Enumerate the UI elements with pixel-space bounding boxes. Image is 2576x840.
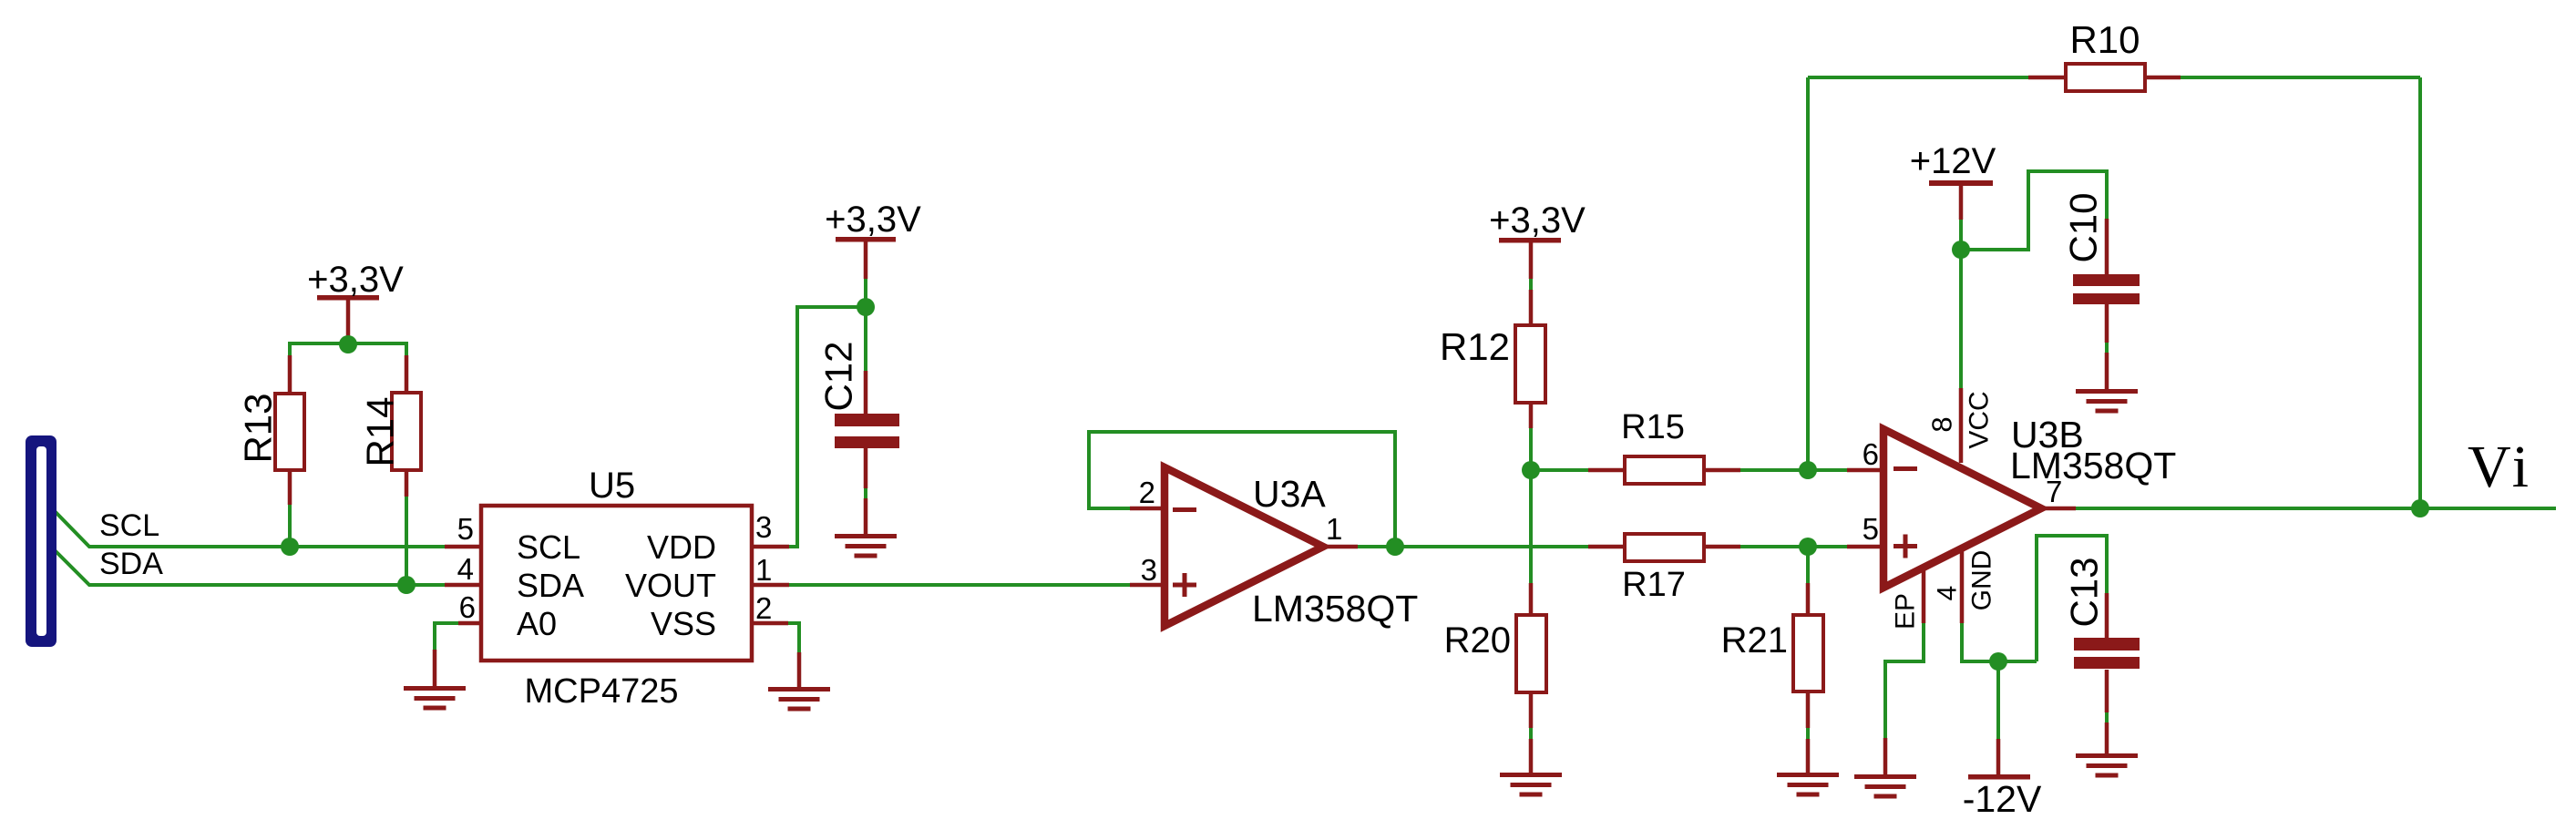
svg-text:+3,3V: +3,3V (825, 200, 921, 240)
ground under U5 VSS (768, 652, 830, 712)
svg-text:SCL: SCL (99, 508, 159, 543)
wire SDA from connector to U5 pin 4 (51, 547, 445, 585)
power -12V supply (1963, 739, 2042, 820)
svg-text:6: 6 (1863, 437, 1879, 471)
wire SCL from connector to U5 pin 5 (51, 507, 445, 547)
op-amp U3B LM358QT (1847, 388, 2176, 630)
net label Vi (2468, 434, 2533, 500)
op-amp U3A LM358QT (1130, 467, 1418, 630)
svg-text:SCL: SCL (517, 528, 580, 566)
svg-text:+3,3V: +3,3V (1489, 200, 1586, 241)
wire +12V node down to VCC pin (1959, 220, 1963, 388)
svg-text:1: 1 (1326, 512, 1342, 546)
junction +12V/VCC/C10 (1952, 241, 1970, 259)
svg-text:VDD: VDD (647, 528, 716, 566)
ground under C12 (835, 498, 897, 558)
ground under R20 (1500, 739, 1562, 797)
wire R15 to U3B pin 6 node (1740, 468, 1847, 472)
wire U3B EP pin to ground (1885, 623, 1924, 738)
wire C13 bottom to ground (2105, 712, 2109, 722)
resistor R14 (359, 355, 422, 497)
wire R12 node to R15 (1531, 468, 1588, 472)
wire R10 down to output Vi node (2418, 77, 2422, 508)
ground under R21 (1777, 739, 1839, 797)
svg-text:5: 5 (1863, 512, 1879, 546)
svg-text:+3,3V: +3,3V (307, 260, 404, 300)
wire U5 pin 3 VDD to +3,3V node (789, 307, 861, 547)
power +3,3V supply above C12 (825, 200, 921, 279)
svg-text:3: 3 (1141, 553, 1157, 587)
junction GND/-12V/C13 (1989, 652, 2007, 671)
wire U5 pin 1 VOUT to U3A pin 3 (789, 583, 1130, 587)
svg-text:1: 1 (755, 553, 772, 587)
junction R15/R10/pin6 node (1799, 461, 1817, 479)
resistor R17 (1588, 534, 1740, 604)
net label SCL (99, 508, 159, 543)
resistor R20 (1444, 583, 1546, 728)
svg-text:8: 8 (1926, 416, 1958, 432)
wire U3A feedback pin 2 to output (1089, 432, 1395, 547)
junction +3,3V rail (339, 335, 357, 353)
junction SCL/R13 (281, 538, 299, 556)
svg-text:VSS: VSS (651, 605, 716, 642)
svg-text:-12V: -12V (1963, 778, 2042, 820)
svg-text:SDA: SDA (517, 567, 584, 604)
svg-text:LM358QT: LM358QT (1252, 588, 1418, 630)
power +12V supply (1910, 141, 1996, 220)
svg-text:3: 3 (755, 510, 772, 544)
wire R10 left segment (1808, 76, 2028, 79)
svg-text:Vi: Vi (2468, 434, 2533, 500)
svg-text:A0: A0 (517, 605, 557, 642)
power +3,3V supply above R12 (1489, 200, 1586, 279)
wire U3B pin 7 output to Vi (2076, 507, 2556, 510)
power +3,3V supply above R13/R14 (307, 260, 404, 336)
wire C10 bottom to ground (2105, 343, 2109, 353)
net label SDA (99, 547, 163, 581)
junction SDA/R14 (397, 576, 416, 594)
capacitor C10 (2062, 192, 2140, 343)
svg-text:R21: R21 (1721, 620, 1788, 661)
ground under U3B EP (1854, 738, 1916, 799)
svg-text:5: 5 (457, 512, 474, 546)
svg-text:R10: R10 (2069, 18, 2140, 61)
wire U5 pin 2 VSS to ground (788, 623, 799, 652)
wire R13 bottom to SCL net (288, 505, 292, 547)
svg-text:4: 4 (1933, 586, 1963, 601)
capacitor C13 (2063, 557, 2140, 712)
svg-text:LM358QT: LM358QT (2010, 445, 2176, 487)
svg-text:R17: R17 (1622, 566, 1686, 604)
resistor R12 (1440, 290, 1545, 428)
junction U3A output/feedback (1386, 538, 1404, 556)
wire R12 node down to R20 (1529, 428, 1533, 583)
wire -12V node down stem (1996, 661, 2000, 739)
svg-text:R14: R14 (359, 396, 402, 466)
capacitor C12 (817, 341, 900, 488)
svg-text:C13: C13 (2063, 557, 2106, 627)
svg-text:R12: R12 (1440, 325, 1510, 368)
svg-text:R13: R13 (237, 393, 280, 463)
svg-text:C12: C12 (817, 341, 860, 411)
wire R21 bottom to ground (1806, 728, 1810, 739)
wire U3B GND pin to -12V node (1962, 623, 2037, 661)
wire +3,3V node through C12 top (864, 279, 867, 371)
connector J1 (I2C header) (26, 435, 56, 647)
junction output/R10 Vi node (2411, 499, 2429, 517)
wire -12V node to C13 top (2037, 536, 2107, 661)
svg-text:4: 4 (457, 552, 474, 586)
resistor R13 (237, 355, 305, 505)
junction +3,3V/C12/VDD (857, 298, 875, 316)
svg-text:2: 2 (1139, 476, 1155, 509)
ground under U5 A0 (404, 650, 466, 711)
wire pin 6 node up to R10 (1806, 77, 1810, 470)
wire +12V node to C10 top (1961, 171, 2107, 250)
resistor R21 (1721, 583, 1823, 728)
resistor R15 (1588, 408, 1740, 484)
svg-text:VCC: VCC (1965, 391, 1995, 448)
svg-text:C10: C10 (2062, 192, 2105, 262)
svg-text:R15: R15 (1621, 408, 1685, 446)
svg-text:GND: GND (1967, 550, 1997, 611)
resistor R10 (2028, 18, 2181, 91)
ground under C10 (2076, 353, 2138, 414)
svg-text:EP: EP (1891, 593, 1921, 630)
wire R12 top stem (1529, 279, 1533, 290)
svg-text:6: 6 (459, 590, 476, 624)
wire C12 bottom to ground (864, 488, 867, 498)
svg-text:R20: R20 (1444, 620, 1511, 661)
wire R17 to U3B pin 5 node (1740, 545, 1847, 548)
ground under C13 (2076, 722, 2138, 778)
junction R12/R15/R20 node (1522, 461, 1540, 479)
wire R10 right segment (2181, 76, 2420, 79)
svg-text:2: 2 (755, 591, 772, 625)
svg-text:U3A: U3A (1253, 473, 1326, 515)
svg-text:+12V: +12V (1910, 141, 1996, 181)
wire pin 5 node down to R21 (1806, 547, 1810, 583)
wire R14 bottom to SDA net (405, 497, 408, 585)
wire U3A output to R17 (1358, 545, 1588, 548)
svg-text:SDA: SDA (99, 547, 163, 581)
wire +3,3V rail linking R13 and R14 tops (290, 343, 406, 356)
svg-text:MCP4725: MCP4725 (525, 672, 679, 711)
svg-text:U5: U5 (589, 466, 635, 506)
IC U5 MCP4725 (445, 466, 789, 711)
wire U5 pin 6 A0 to ground (435, 623, 458, 650)
wire R20 bottom to ground (1529, 728, 1533, 739)
junction R17/R21/pin5 node (1799, 538, 1817, 556)
svg-text:VOUT: VOUT (625, 567, 716, 604)
